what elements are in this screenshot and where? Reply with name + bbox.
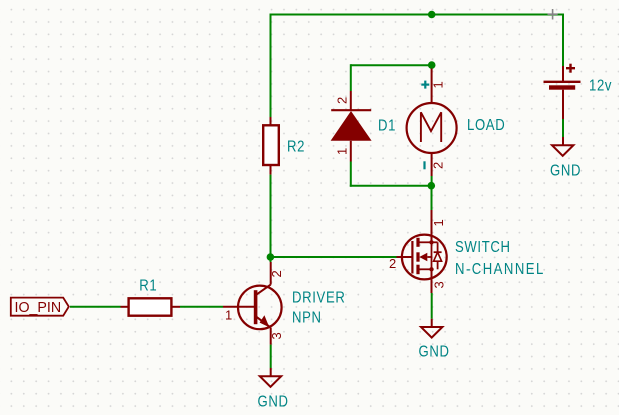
wire diode top horizontal bbox=[351, 64, 432, 66]
junction diode top bbox=[428, 61, 436, 69]
pin 1 drain bbox=[431, 219, 446, 226]
label R1 bbox=[139, 277, 157, 294]
svg-text:1: 1 bbox=[225, 308, 232, 323]
svg-text:N-CHANNEL: N-CHANNEL bbox=[455, 261, 545, 278]
gray cross marker bbox=[548, 9, 558, 20]
label D1 bbox=[378, 117, 396, 134]
label DRIVER bbox=[292, 289, 345, 306]
svg-text:2: 2 bbox=[431, 162, 446, 169]
wire io_pin to R1 bbox=[70, 306, 121, 308]
wire junction to mosfet gate bbox=[270, 256, 396, 258]
wire diode top vertical bbox=[350, 64, 352, 91]
svg-text:GND: GND bbox=[550, 162, 581, 179]
wire load to mosfet drain bbox=[431, 186, 433, 210]
svg-text:NPN: NPN bbox=[292, 309, 322, 326]
label GND npn bbox=[258, 393, 289, 410]
wire battery to gnd bbox=[562, 119, 564, 137]
pin 2 diode cathode bbox=[335, 97, 350, 104]
svg-text:2: 2 bbox=[389, 256, 396, 271]
label NPN bbox=[292, 309, 322, 326]
wire emitter to gnd bbox=[270, 345, 272, 368]
label SWITCH bbox=[455, 239, 511, 256]
pin 3 emitter bbox=[269, 332, 284, 339]
label LOAD bbox=[467, 117, 505, 134]
pin 1 load bbox=[431, 81, 446, 88]
pin 1 base bbox=[225, 308, 232, 323]
junction top rail bbox=[428, 11, 436, 19]
label 12v bbox=[589, 77, 612, 94]
svg-text:3: 3 bbox=[432, 281, 447, 288]
pin 2 collector bbox=[269, 270, 284, 277]
diode D1 bbox=[331, 91, 372, 162]
label GND mosfet bbox=[419, 343, 450, 360]
pin 3 source bbox=[432, 281, 447, 288]
pin 2 gate bbox=[389, 256, 396, 271]
svg-text:12v: 12v bbox=[589, 77, 612, 94]
svg-text:1: 1 bbox=[431, 219, 446, 226]
wire diode bottom horizontal bbox=[350, 185, 432, 187]
wire top rail bbox=[271, 14, 564, 16]
hierarchical label IO_PIN bbox=[11, 298, 69, 316]
svg-text:DRIVER: DRIVER bbox=[292, 289, 345, 306]
pin 1 diode anode bbox=[335, 148, 350, 155]
wire battery branch down bbox=[562, 14, 564, 67]
svg-text:GND: GND bbox=[419, 343, 450, 360]
svg-text:D1: D1 bbox=[378, 117, 396, 134]
svg-text:1: 1 bbox=[335, 148, 350, 155]
svg-text:LOAD: LOAD bbox=[467, 117, 505, 134]
svg-text:R1: R1 bbox=[139, 277, 157, 294]
pin 2 load bbox=[431, 162, 446, 169]
svg-text:SWITCH: SWITCH bbox=[455, 239, 511, 256]
transistor Q1 DRIVER NPN bbox=[223, 262, 282, 345]
wire R1 to base bbox=[180, 306, 223, 308]
label N-CHANNEL bbox=[455, 261, 545, 278]
battery BT1 bbox=[544, 64, 581, 119]
svg-text:IO_PIN: IO_PIN bbox=[15, 299, 62, 315]
junction load bottom bbox=[428, 182, 436, 190]
motor LOAD bbox=[407, 65, 457, 186]
junction node gate/collector bbox=[267, 253, 275, 261]
svg-text:1: 1 bbox=[431, 81, 446, 88]
mosfet Q2 SWITCH N-CHANNEL bbox=[397, 210, 447, 293]
svg-text:R2: R2 bbox=[287, 138, 305, 155]
resistor R1 bbox=[121, 298, 181, 315]
ground battery bbox=[552, 137, 573, 156]
ground NPN bbox=[260, 368, 281, 387]
ground MOSFET bbox=[421, 319, 442, 338]
svg-text:3: 3 bbox=[269, 332, 284, 339]
wire source to gnd bbox=[431, 293, 433, 319]
wire R2 branch top bbox=[270, 14, 272, 118]
label GND battery bbox=[550, 162, 581, 179]
wire R2 to junction bbox=[270, 175, 272, 262]
svg-text:2: 2 bbox=[269, 270, 284, 277]
wire diode bottom vertical bbox=[350, 162, 352, 187]
label R2 bbox=[287, 138, 305, 155]
svg-text:2: 2 bbox=[335, 97, 350, 104]
resistor R2 bbox=[263, 117, 279, 175]
svg-text:GND: GND bbox=[258, 393, 289, 410]
